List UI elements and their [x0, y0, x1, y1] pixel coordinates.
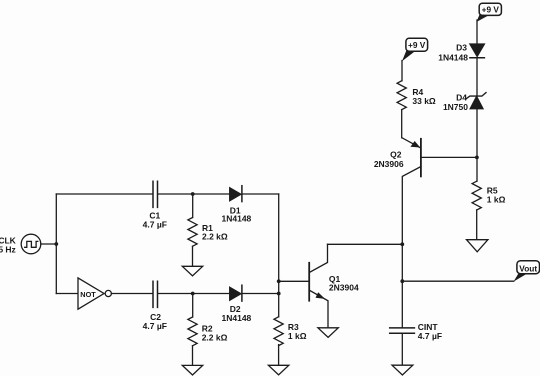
wire R1 to ground — [192, 246, 194, 266]
node Vout junction — [400, 279, 404, 283]
svg-text:1N4148: 1N4148 — [222, 313, 252, 323]
wire R4 to Q2 emitter — [401, 110, 403, 138]
node D2 junction — [277, 292, 281, 296]
svg-text:1 kΩ: 1 kΩ — [487, 195, 506, 205]
node at clock junction — [54, 242, 58, 246]
transistor Q2 2N3906 — [374, 138, 421, 328]
wire NOT to C2 — [111, 293, 152, 295]
wire C1 to D1 — [158, 193, 230, 195]
supply flag +9V (top right) — [476, 3, 501, 22]
node Q2 base junction — [475, 156, 479, 160]
wire D2 to right vertical — [242, 293, 279, 295]
wire junction down to R2 — [192, 294, 194, 318]
resistor R2 2.2 kOhm — [188, 317, 228, 346]
wire R5 to ground — [476, 210, 478, 240]
diode D2 1N4148 — [222, 285, 252, 323]
wire Q1 base — [279, 280, 309, 282]
svg-text:1N4148: 1N4148 — [438, 52, 468, 62]
node C1/R1 junction — [191, 192, 195, 196]
transistor Q1 2N3904 — [309, 244, 359, 327]
resistor R5 1 kOhm — [472, 181, 506, 210]
wire top branch to C1 — [56, 193, 152, 195]
svg-text:4.7 µF: 4.7 µF — [143, 321, 167, 331]
svg-text:2.2 kΩ: 2.2 kΩ — [202, 232, 228, 242]
node base junction — [277, 279, 281, 283]
wire clock to left vertical — [41, 243, 57, 245]
wire Q1 collector to Q2 collector — [328, 243, 403, 245]
svg-text:D4: D4 — [456, 92, 467, 102]
svg-text:D3: D3 — [456, 43, 467, 53]
capacitor C1 4.7 uF — [143, 181, 167, 229]
wire left vertical bus — [55, 194, 57, 294]
wire D3 to D4 — [476, 58, 478, 96]
svg-text:4.7 µF: 4.7 µF — [418, 331, 442, 341]
ground below R2 — [182, 365, 202, 375]
wire R2 to ground — [192, 346, 194, 366]
clock source CLK 5 Hz — [0, 234, 41, 255]
wire Vout branch — [402, 280, 514, 282]
svg-text:+9 V: +9 V — [408, 40, 426, 50]
diode D3 1N4148 — [438, 43, 484, 63]
diode D1 1N4148 — [222, 186, 252, 224]
svg-text:1N4148: 1N4148 — [222, 214, 252, 224]
svg-text:Vout: Vout — [519, 263, 537, 273]
node Q1/Q2 collector junction — [400, 242, 404, 246]
ground below CINT — [392, 365, 413, 375]
ground below R1 — [182, 266, 202, 276]
diode D4 zener 1N750 — [443, 92, 486, 112]
wire C2 to D2 — [158, 293, 230, 295]
svg-text:NOT: NOT — [80, 290, 96, 299]
wire Q2 base to right column — [422, 156, 477, 158]
resistor R1 2.2 kOhm — [188, 218, 228, 247]
wire CINT to ground — [401, 333, 403, 365]
wire bottom branch to NOT gate — [56, 293, 78, 295]
capacitor C2 4.7 uF — [143, 281, 167, 331]
capacitor CINT 4.7 uF — [390, 322, 442, 341]
ground below R3 — [268, 365, 288, 375]
resistor R3 1 kOhm — [274, 317, 307, 346]
node C2/R2 junction — [191, 292, 195, 296]
wire D4 to R5 — [476, 109, 478, 182]
NOT gate — [78, 278, 111, 309]
svg-text:2N3904: 2N3904 — [329, 283, 359, 293]
ground below Q1 emitter — [318, 328, 338, 338]
ground below R5 — [467, 240, 488, 252]
wire D1 to right vertical — [242, 193, 279, 195]
svg-text:1 kΩ: 1 kΩ — [288, 331, 307, 341]
supply flag +9V (R4 branch) — [402, 38, 428, 61]
svg-text:2N3906: 2N3906 — [374, 159, 404, 169]
svg-text:33 kΩ: 33 kΩ — [412, 96, 436, 106]
wire +9V to R4 — [401, 61, 403, 81]
wire R3 to ground — [278, 345, 280, 366]
svg-text:+9 V: +9 V — [482, 5, 500, 15]
svg-text:1N750: 1N750 — [443, 102, 468, 112]
resistor R4 33 kOhm — [397, 81, 436, 110]
svg-text:4.7 µF: 4.7 µF — [143, 219, 167, 229]
output flag Vout — [514, 261, 540, 282]
wire right vertical bus — [278, 194, 280, 317]
wire +9V to D3 — [476, 20, 478, 44]
svg-text:5 Hz: 5 Hz — [0, 245, 16, 255]
svg-text:2.2 kΩ: 2.2 kΩ — [202, 332, 228, 342]
wire junction down to R1 — [192, 194, 194, 218]
